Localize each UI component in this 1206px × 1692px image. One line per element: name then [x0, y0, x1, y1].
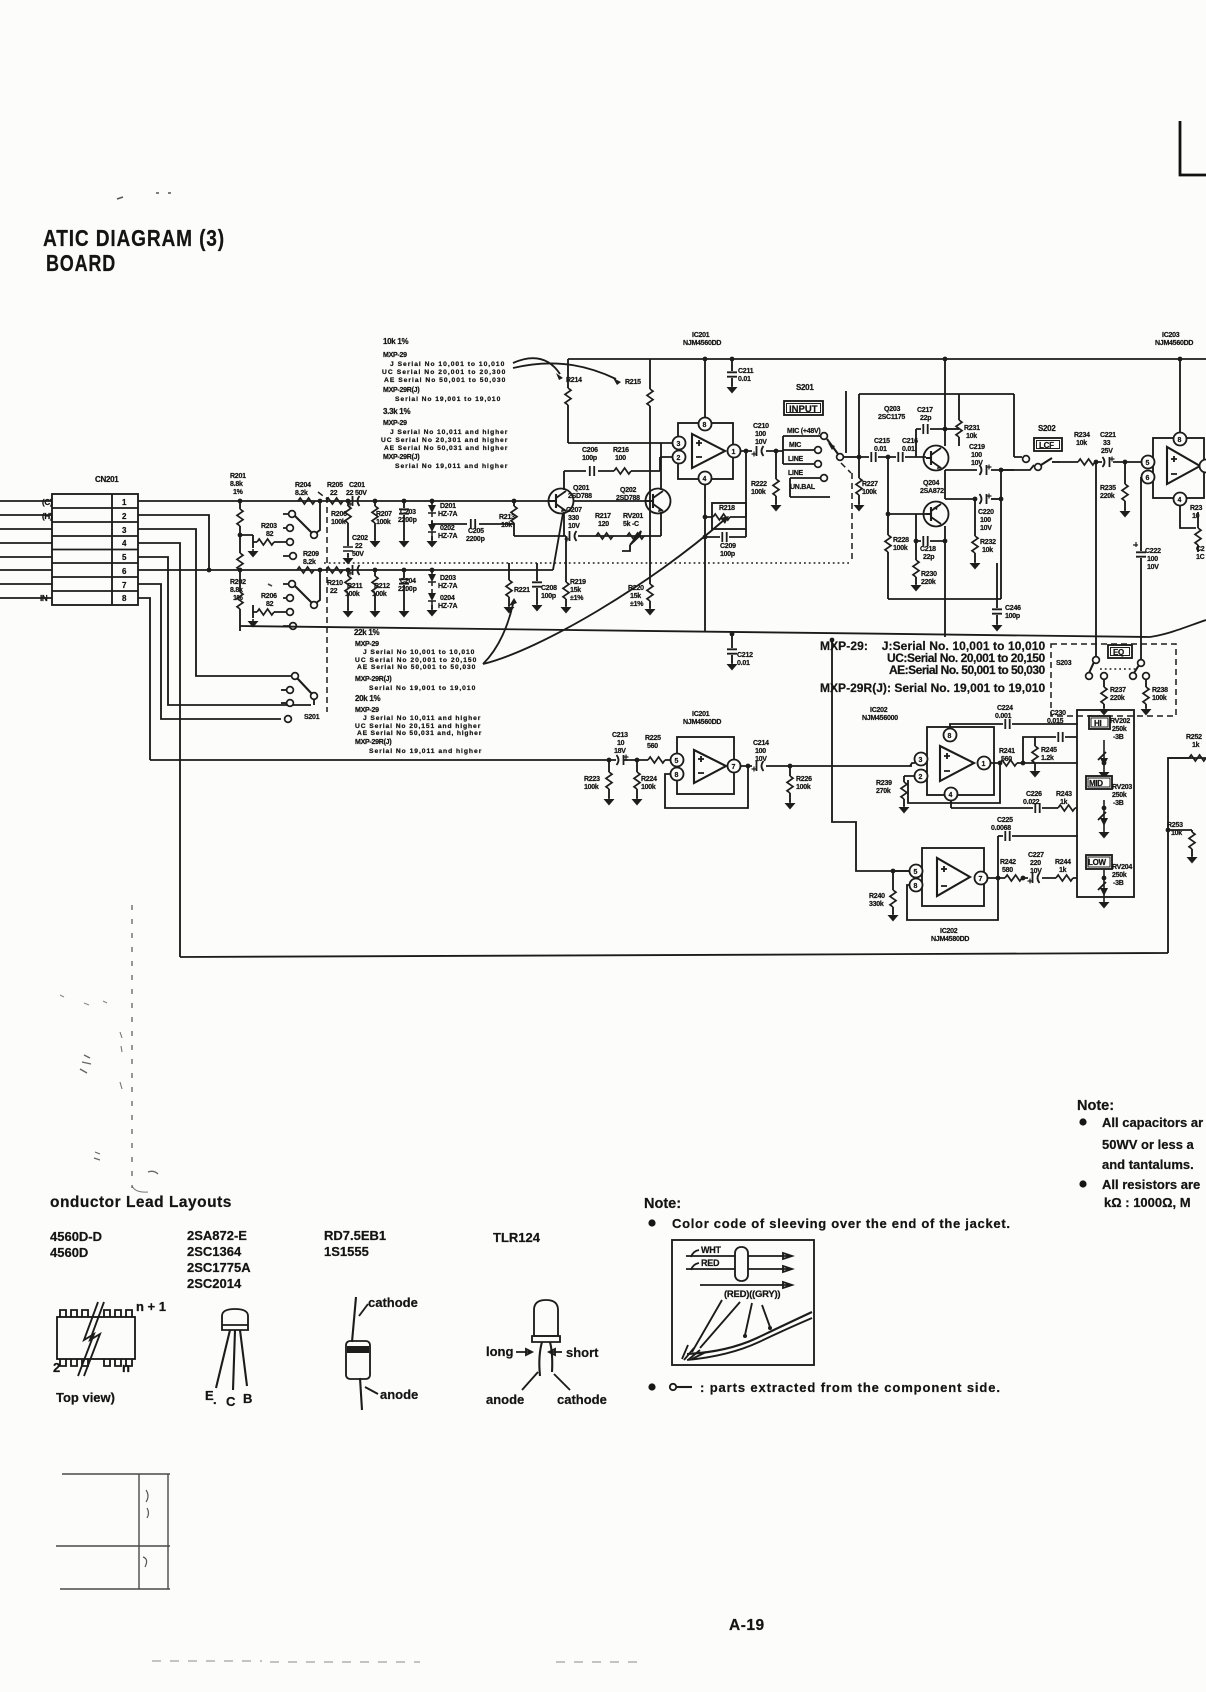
svg-text:8: 8	[914, 883, 918, 890]
resistor R203	[240, 523, 288, 545]
svg-text:1S1555: 1S1555	[324, 1244, 369, 1259]
junction R201 mid	[238, 533, 243, 538]
svg-text:R23: R23	[1190, 505, 1202, 512]
wire IC202a feedback loop	[908, 763, 1000, 803]
svg-text:120: 120	[598, 521, 609, 528]
svg-text:22k 1%: 22k 1%	[354, 628, 380, 637]
svg-text:R253: R253	[1167, 822, 1183, 829]
svg-text:INPUT: INPUT	[789, 404, 818, 415]
left margin smudges	[60, 995, 158, 1174]
capacitor C224	[950, 705, 1078, 729]
svg-text:UN.BAL: UN.BAL	[790, 484, 816, 491]
svg-text:S201: S201	[796, 383, 814, 392]
svg-text:4560D: 4560D	[50, 1245, 88, 1260]
svg-text:20k 1%: 20k 1%	[355, 694, 381, 703]
svg-text:2SC1364: 2SC1364	[187, 1244, 242, 1259]
resistor R243	[1056, 791, 1075, 811]
svg-text:UC Serial No 20,301 and highe: UC Serial No 20,301 and higher	[381, 437, 508, 444]
op-amp IC202a	[915, 727, 995, 801]
wire Q201-Q202 link	[573, 500, 646, 502]
wire MID line	[951, 807, 1077, 809]
resistor R242	[1000, 859, 1025, 881]
left margin hook	[132, 1185, 148, 1192]
wire IC201a pin8 supply	[704, 359, 706, 417]
svg-text:MIC (+48V): MIC (+48V)	[787, 428, 820, 435]
svg-text:Q204: Q204	[923, 480, 939, 487]
svg-text:100k: 100k	[751, 489, 766, 496]
LED package drawing	[486, 1300, 607, 1407]
svg-text:R239: R239	[876, 780, 892, 787]
svg-text:4: 4	[703, 476, 707, 483]
resistor R216	[613, 447, 631, 474]
svg-text:J Serial No 10,001 to 10,010: J Serial No 10,001 to 10,010	[390, 361, 505, 368]
svg-text:10V: 10V	[1147, 564, 1159, 571]
IC201 label lower	[683, 711, 721, 726]
op-amp IC201b	[671, 737, 741, 794]
switch S202	[1001, 456, 1060, 471]
amp block box right edge	[1013, 394, 1015, 457]
svg-text:R216: R216	[613, 447, 629, 454]
svg-text:22 50V: 22 50V	[346, 490, 367, 497]
wire pin8 drop to lower rail	[138, 598, 150, 760]
svg-text:R231: R231	[964, 425, 980, 432]
bottom edge dashes	[152, 1661, 640, 1662]
dashed hook top	[318, 492, 327, 499]
svg-text:100k: 100k	[1152, 695, 1167, 702]
svg-text:(RED)((GRY)): (RED)((GRY))	[724, 1289, 780, 1300]
svg-text:100p: 100p	[1005, 613, 1020, 620]
part name 2SA872-E list	[187, 1228, 251, 1291]
svg-text:220k: 220k	[1100, 493, 1115, 500]
capacitor C225	[991, 817, 1078, 878]
speck marks top-left	[117, 193, 171, 199]
svg-text:: parts extracted from the com: : parts extracted from the component sid…	[700, 1380, 1000, 1395]
wire ch2 rail diagonal to Q201 emitter	[553, 513, 563, 570]
svg-text:22p: 22p	[923, 554, 934, 561]
capacitor C209	[703, 529, 746, 558]
IC202 label upper	[862, 707, 898, 722]
svg-text:R209: R209	[303, 551, 319, 558]
svg-text:R201: R201	[230, 473, 246, 480]
svg-text:2200p: 2200p	[398, 586, 417, 593]
svg-text:1.2k: 1.2k	[1041, 755, 1054, 762]
pot RV202	[1098, 740, 1110, 779]
capacitor C201	[346, 482, 367, 507]
svg-text:C246: C246	[1005, 605, 1021, 612]
svg-text:Color code of sleeving over th: Color code of sleeving over the end of t…	[672, 1216, 1010, 1231]
svg-text:0204: 0204	[440, 595, 455, 602]
svg-text:100p: 100p	[582, 455, 597, 462]
svg-text:1: 1	[732, 449, 736, 456]
svg-text:J Serial No 10,001 to 10,010: J Serial No 10,001 to 10,010	[363, 649, 475, 656]
note right text 2	[1102, 1177, 1200, 1210]
capacitor C226	[1023, 791, 1042, 813]
svg-text:100: 100	[980, 517, 991, 524]
svg-text:220: 220	[1030, 860, 1041, 867]
svg-text:22: 22	[355, 543, 363, 550]
capacitor C211	[727, 357, 754, 394]
EQ dashed box	[1051, 644, 1176, 716]
svg-text:R218: R218	[719, 505, 735, 512]
svg-text:-3B: -3B	[1113, 734, 1124, 741]
diode D203	[428, 570, 458, 590]
transistor Q202	[646, 489, 671, 514]
amp block box bottom	[888, 598, 1001, 600]
svg-text:330: 330	[568, 515, 579, 522]
svg-text:8: 8	[948, 733, 952, 740]
dotted gang link S203	[1100, 668, 1137, 670]
wire vertical drop to IC202 input	[832, 640, 910, 871]
svg-text:2200p: 2200p	[398, 517, 417, 524]
capacitor C246	[992, 563, 1022, 632]
callout curve to R215	[513, 363, 616, 379]
svg-text:560: 560	[647, 743, 658, 750]
junction rail	[1094, 460, 1099, 465]
svg-text:Q202: Q202	[620, 487, 636, 494]
svg-text:C212: C212	[737, 652, 753, 659]
capacitor C203	[398, 499, 417, 548]
diode 0204	[427, 568, 458, 617]
svg-text:100: 100	[755, 748, 766, 755]
resistor R205	[326, 482, 343, 504]
svg-text:4560D-D: 4560D-D	[50, 1229, 102, 1244]
svg-text:4: 4	[1178, 497, 1182, 504]
transistor Q201 label	[568, 485, 592, 500]
svg-text:R234: R234	[1074, 432, 1090, 439]
svg-text:MID: MID	[1089, 779, 1103, 788]
wire pin6 channel-2 rail	[138, 569, 553, 571]
callout curve to R221	[483, 604, 513, 664]
svg-text:IC201: IC201	[692, 711, 710, 718]
resistor R231	[945, 394, 980, 446]
svg-text:MXP-29R(J): MXP-29R(J)	[383, 387, 419, 394]
svg-text:C2: C2	[1196, 546, 1205, 553]
resistor R214	[565, 359, 571, 443]
resistor R241	[999, 748, 1078, 766]
svg-text:0.01: 0.01	[874, 446, 887, 453]
wire IC203 pin8 supply	[1179, 359, 1181, 432]
svg-text:3: 3	[677, 441, 681, 448]
svg-text:C208: C208	[541, 585, 557, 592]
svg-text:C220: C220	[978, 509, 994, 516]
svg-text:C214: C214	[753, 740, 769, 747]
resistor R238	[1141, 679, 1169, 716]
svg-text:5k -C: 5k -C	[623, 521, 639, 528]
transistor Q202 label	[616, 487, 640, 502]
resistor R253	[1166, 822, 1198, 864]
capacitor C227	[1028, 852, 1045, 884]
svg-text:and tantalums.: and tantalums.	[1102, 1157, 1194, 1172]
svg-text:10k: 10k	[966, 433, 977, 440]
svg-text:EQ: EQ	[1113, 648, 1124, 657]
callout curve to R218	[483, 520, 724, 664]
resistor R213	[499, 499, 517, 536]
svg-text:CN201: CN201	[95, 475, 119, 484]
wire C206 R216 line	[564, 470, 660, 472]
svg-text:R203: R203	[261, 523, 277, 530]
svg-text:HZ-7A: HZ-7A	[438, 603, 458, 610]
resistor R234	[1074, 432, 1095, 465]
wire op-amp input node pin2	[660, 457, 678, 471]
svg-text:8.2k: 8.2k	[303, 559, 316, 566]
svg-text:100p: 100p	[720, 551, 735, 558]
capacitor C210	[752, 423, 770, 457]
svg-text:R232: R232	[980, 539, 996, 546]
wire pin1 output	[740, 450, 783, 452]
svg-text:Q203: Q203	[884, 406, 900, 413]
input selector S201	[783, 433, 859, 497]
svg-text:RD7.5EB1: RD7.5EB1	[324, 1228, 386, 1243]
svg-text:C221: C221	[1100, 432, 1116, 439]
amp block box top	[859, 393, 1014, 395]
capacitor C221	[1100, 432, 1116, 467]
svg-text:BOARD: BOARD	[46, 250, 116, 276]
wire op-amp input node pin3	[568, 442, 678, 444]
svg-text:A-19: A-19	[729, 1617, 765, 1634]
LCF box	[1034, 438, 1062, 451]
IC201 label top	[683, 332, 721, 347]
svg-text:.: .	[213, 1392, 217, 1407]
svg-text:33: 33	[1103, 440, 1111, 447]
svg-text:R225: R225	[645, 735, 661, 742]
svg-text:long: long	[486, 1344, 513, 1359]
svg-text:100k: 100k	[641, 784, 656, 791]
svg-text:R204: R204	[295, 482, 311, 489]
svg-text:MXP-29R(J): MXP-29R(J)	[355, 739, 391, 746]
resistor R217	[595, 513, 613, 539]
svg-text:MXP-29: MXP-29	[355, 641, 379, 648]
transistor Q203 label	[878, 406, 905, 421]
svg-text:IC202: IC202	[940, 928, 958, 935]
svg-text:5: 5	[914, 869, 918, 876]
svg-text:S201: S201	[304, 714, 320, 721]
svg-text:MXP-29: MXP-29	[383, 420, 407, 427]
capacitor C205	[466, 519, 485, 543]
svg-text:100k: 100k	[893, 545, 908, 552]
svg-text:R228: R228	[893, 537, 909, 544]
resistor R224	[632, 760, 658, 806]
svg-text:NJM4560DD: NJM4560DD	[1155, 340, 1193, 347]
svg-text:RV204: RV204	[1112, 864, 1132, 871]
svg-text:±1%: ±1%	[570, 595, 584, 602]
svg-text:All capacitors ar: All capacitors ar	[1102, 1115, 1203, 1130]
wire IC203 pin6 feedback	[1140, 477, 1142, 545]
svg-text:LINE: LINE	[788, 470, 804, 477]
resistor R204	[295, 482, 315, 504]
svg-text:2: 2	[677, 455, 681, 462]
svg-text:100k: 100k	[862, 489, 877, 496]
svg-text:15k: 15k	[630, 593, 641, 600]
svg-text:10k: 10k	[1171, 830, 1182, 837]
svg-text:22p: 22p	[920, 415, 931, 422]
wire pin4 drop to big box left edge	[138, 543, 180, 957]
capacitor C204	[398, 568, 417, 618]
resistor R223	[584, 760, 615, 806]
svg-text:25V: 25V	[1101, 448, 1113, 455]
svg-text:J Serial No 10,011 and higher: J Serial No 10,011 and higher	[390, 429, 508, 436]
op-amp IC201a	[673, 418, 741, 485]
LOW box	[1086, 855, 1112, 869]
capacitor C213	[607, 732, 640, 765]
transistor Q204 label	[920, 480, 944, 495]
resistor R218 feedback	[703, 449, 749, 529]
pot RV204	[1098, 870, 1110, 909]
svg-text:15k: 15k	[570, 587, 581, 594]
svg-text:MXP-29R(J): MXP-29R(J)	[355, 676, 391, 683]
switch SW-A contacts	[283, 499, 322, 560]
ground R203	[248, 542, 259, 558]
svg-text:C206: C206	[582, 447, 598, 454]
svg-text:1C: 1C	[1196, 554, 1205, 561]
svg-text:Serial No 19,001 to 19,010: Serial No 19,001 to 19,010	[395, 396, 501, 403]
op-amp IC202b	[910, 848, 988, 906]
IC202 label lower	[931, 928, 969, 943]
resistor R225	[628, 735, 671, 763]
svg-text:10V: 10V	[755, 439, 767, 446]
svg-text:S202: S202	[1038, 424, 1056, 433]
svg-text:R240: R240	[869, 893, 885, 900]
svg-text:6: 6	[1146, 475, 1150, 482]
svg-text:C210: C210	[753, 423, 769, 430]
wire long mid line	[240, 626, 1150, 637]
svg-text:R244: R244	[1055, 859, 1071, 866]
svg-text:1k: 1k	[1192, 742, 1200, 749]
svg-text:R245: R245	[1041, 747, 1057, 754]
wire pin5 drop	[138, 557, 311, 705]
svg-text:270k: 270k	[876, 788, 891, 795]
resistor R201	[237, 499, 243, 570]
svg-text:2SA872-E: 2SA872-E	[187, 1228, 247, 1243]
wire Q204 base	[888, 513, 926, 515]
svg-text:1: 1	[982, 761, 986, 768]
note left bullet 2	[648, 1383, 655, 1390]
switch S201 bottom section	[281, 673, 317, 723]
wire IC203 pin4 to edge parts	[1180, 505, 1196, 528]
speck mark near title	[268, 584, 272, 586]
svg-text:1k: 1k	[1059, 867, 1067, 874]
INPUT box	[784, 401, 823, 415]
svg-text:B: B	[243, 1391, 252, 1406]
ground R208	[248, 612, 259, 628]
wire Q201 collector up	[563, 471, 565, 490]
resistor R221	[504, 563, 531, 614]
wire Q202 collector up	[660, 443, 662, 490]
svg-text:100: 100	[755, 431, 766, 438]
svg-text:C201: C201	[349, 482, 365, 489]
svg-text:NJM4560DD: NJM4560DD	[683, 340, 721, 347]
svg-text:8: 8	[675, 772, 679, 779]
svg-text:C: C	[226, 1394, 236, 1409]
big MXP-29 text	[820, 639, 1046, 695]
svg-text:2SC1175: 2SC1175	[878, 414, 905, 421]
svg-text:0202: 0202	[440, 525, 455, 532]
svg-text:5: 5	[1146, 460, 1150, 467]
svg-text:R235: R235	[1100, 485, 1116, 492]
resistor R208	[253, 593, 288, 615]
svg-text:R227: R227	[862, 481, 878, 488]
svg-text:C222: C222	[1145, 548, 1161, 555]
resistor R222	[751, 449, 782, 512]
svg-text:2: 2	[53, 1360, 60, 1375]
svg-text:C215: C215	[874, 438, 890, 445]
svg-text:3: 3	[919, 757, 923, 764]
svg-text:All resistors are: All resistors are	[1102, 1177, 1200, 1192]
svg-text:100k: 100k	[584, 784, 599, 791]
svg-text:0.01: 0.01	[902, 446, 915, 453]
svg-text:RV202: RV202	[1110, 718, 1130, 725]
capacitor C215	[871, 438, 890, 462]
connector CN201 body	[52, 494, 138, 605]
IC203 label	[1155, 332, 1193, 347]
resistor R235	[1100, 462, 1131, 518]
resistor R239	[876, 776, 915, 814]
svg-text:HZ-7A: HZ-7A	[438, 583, 458, 590]
svg-text:10V: 10V	[980, 525, 992, 532]
wire IC202a pin4	[950, 801, 952, 808]
svg-text:R226: R226	[796, 776, 812, 783]
resistor R212	[370, 568, 391, 618]
wire stubs from page edge into connector	[0, 501, 52, 598]
pot RV204 label	[1112, 864, 1132, 887]
svg-text:220k: 220k	[921, 579, 936, 586]
svg-text:2SA872: 2SA872	[920, 488, 944, 495]
svg-text:RED: RED	[701, 1258, 720, 1268]
svg-text:82: 82	[266, 601, 274, 608]
TO-92 package drawing	[205, 1309, 252, 1409]
switch S203 left	[1086, 657, 1108, 680]
svg-text:100k: 100k	[376, 519, 391, 526]
svg-text:2SC1775A: 2SC1775A	[187, 1260, 251, 1275]
svg-text:HZ-7A: HZ-7A	[438, 511, 458, 518]
diode package drawing	[346, 1295, 418, 1410]
note right bullet 1	[1079, 1118, 1086, 1125]
connector pin numbers	[122, 498, 127, 603]
wire input line C215 C216	[859, 456, 926, 458]
wire IC201b output	[740, 765, 912, 767]
svg-text:R211: R211	[347, 583, 363, 590]
switch S203 right	[1130, 660, 1150, 680]
svg-text:R242: R242	[1000, 859, 1016, 866]
EQ box	[1108, 645, 1132, 658]
svg-text:LCF: LCF	[1039, 441, 1054, 450]
HI box	[1089, 716, 1110, 729]
transistor Q201	[549, 489, 574, 514]
svg-text:0.0068: 0.0068	[991, 825, 1011, 832]
svg-text:-3B: -3B	[1113, 880, 1124, 887]
resistor R202	[237, 568, 243, 631]
svg-text:3.3k 1%: 3.3k 1%	[383, 407, 410, 416]
resistor R252	[1168, 734, 1206, 761]
svg-text:short: short	[566, 1345, 599, 1360]
svg-text:R222: R222	[751, 481, 767, 488]
wire R241 to C230 riser	[1023, 737, 1030, 763]
svg-text:C213: C213	[612, 732, 628, 739]
svg-text:IC202: IC202	[870, 707, 888, 714]
svg-text:C207: C207	[566, 507, 582, 514]
resistor R215	[647, 359, 653, 500]
svg-text:C202: C202	[352, 535, 368, 542]
svg-text:ATIC DIAGRAM (3): ATIC DIAGRAM (3)	[43, 225, 225, 251]
transistor Q204	[924, 502, 949, 527]
svg-text:(H): (H)	[42, 512, 53, 521]
svg-text:2: 2	[919, 774, 923, 781]
svg-text:C217: C217	[917, 407, 933, 414]
svg-text:AE:Serial No. 50,001 to 50,030: AE:Serial No. 50,001 to 50,030	[889, 663, 1046, 677]
svg-text:50V: 50V	[352, 551, 364, 558]
svg-text:Note:: Note:	[644, 1196, 681, 1212]
capacitor C219	[969, 444, 992, 475]
svg-text:LOW: LOW	[1088, 858, 1107, 867]
